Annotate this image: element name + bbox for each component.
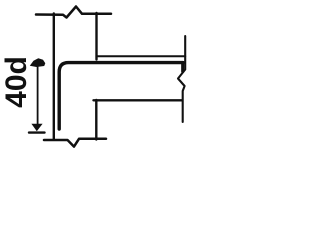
svg-text:40d: 40d — [0, 56, 33, 108]
